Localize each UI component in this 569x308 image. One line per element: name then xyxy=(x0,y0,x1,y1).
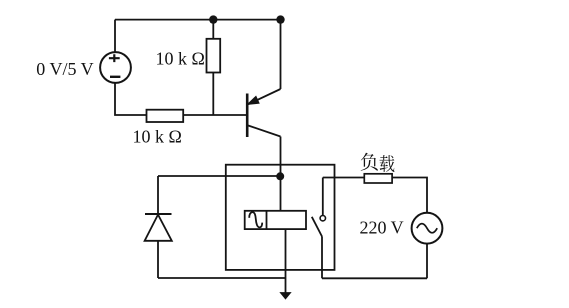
relay coil K1 xyxy=(245,211,306,229)
node junction dot B xyxy=(276,15,284,23)
node junction dot C xyxy=(276,172,284,180)
relay K1 outline box xyxy=(226,165,335,270)
resistor R2 10k horizontal xyxy=(147,110,184,122)
wire top rail xyxy=(115,19,281,21)
wire R1 bottom lead xyxy=(212,73,214,116)
wire bottom left wire xyxy=(158,277,286,279)
wire emitter lead xyxy=(280,20,282,89)
voltage source V1 0V/5V xyxy=(100,52,131,83)
svg-text:10 k Ω: 10 k Ω xyxy=(156,49,205,69)
svg-text:0 V/5 V: 0 V/5 V xyxy=(36,59,93,79)
wire base wire xyxy=(183,114,247,116)
wire coil bottom lead xyxy=(285,229,287,293)
label fuzai (load) xyxy=(361,153,395,172)
wire load to corner xyxy=(392,178,427,213)
wire diode lower lead xyxy=(157,241,159,278)
wire collector lead xyxy=(280,137,282,211)
diode D1 flyback xyxy=(145,214,172,241)
relay switch contact K1 xyxy=(312,216,326,237)
resistor R1 10k vertical xyxy=(207,39,221,73)
AC source 220V xyxy=(412,213,443,244)
wire source top lead xyxy=(114,20,116,53)
wire switch top lead xyxy=(322,178,324,216)
node junction dot A xyxy=(209,15,217,23)
wire to load xyxy=(323,177,365,179)
load resistor RL xyxy=(364,174,392,183)
wire AC bottom lead xyxy=(426,244,428,279)
wire switch bottom lead xyxy=(321,237,323,279)
svg-text:220 V: 220 V xyxy=(360,218,404,238)
wire diode top wire xyxy=(158,175,280,177)
svg-text:10 k Ω: 10 k Ω xyxy=(133,127,182,147)
ground xyxy=(280,293,290,299)
wire R1 top lead xyxy=(212,20,214,39)
transistor Q1 PNP xyxy=(247,89,280,137)
wire source bottom lead xyxy=(115,83,147,115)
wire bottom right wire xyxy=(322,277,427,279)
wire diode upper lead xyxy=(157,176,159,214)
